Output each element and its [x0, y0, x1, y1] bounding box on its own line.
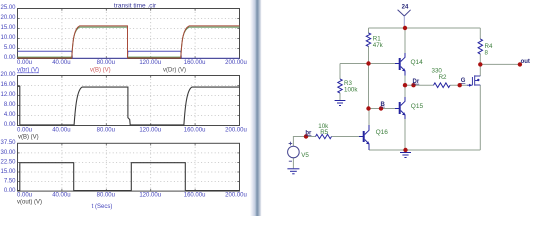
svg-text:47k: 47k — [373, 42, 384, 49]
plot2 x-axis labels — [17, 127, 247, 133]
svg-text:t (Secs): t (Secs) — [92, 204, 113, 210]
junction dot rail/collector — [403, 26, 407, 30]
plot3 x-axis labels — [17, 193, 247, 199]
svg-text:24: 24 — [402, 5, 409, 11]
junction dot node Dr left — [403, 83, 407, 87]
svg-text:v(Dr) (V): v(Dr) (V) — [163, 68, 186, 74]
wire R1 bottom to base wire — [368, 46, 370, 64]
MOSFET M1 — [467, 75, 481, 85]
plot1 x-axis labels — [17, 60, 247, 66]
wire node B to Q15 base — [369, 108, 396, 110]
svg-text:v(B) (V): v(B) (V) — [90, 68, 111, 74]
svg-text:120.00u: 120.00u — [139, 60, 161, 66]
svg-text:80.00u: 80.00u — [97, 60, 115, 66]
resistor R2 — [434, 83, 451, 88]
svg-text:B: B — [381, 102, 386, 108]
transistor Q14 — [395, 53, 405, 76]
wire MOSFET source down — [479, 85, 481, 150]
plot3 grid — [18, 143, 240, 191]
svg-text:v(br) (V): v(br) (V) — [17, 68, 39, 74]
svg-text:37.50: 37.50 — [0, 140, 16, 146]
plot2 trace v(B) dark — [18, 86, 240, 125]
plot3 y-axis labels — [0, 140, 16, 194]
svg-text:20.00: 20.00 — [0, 15, 16, 21]
wire R4 bottom to node out — [479, 54, 481, 64]
svg-text:out: out — [521, 59, 530, 65]
plot3 trace v(out) dark — [18, 163, 240, 191]
transistor Q16 — [359, 125, 369, 150]
svg-text:15.00: 15.00 — [0, 169, 16, 175]
plot2 grid — [18, 76, 240, 126]
V5 plus sign — [289, 142, 293, 146]
svg-text:R5: R5 — [320, 129, 328, 136]
wire Q15 emitter down — [404, 119, 406, 150]
ground under R3 — [335, 101, 346, 106]
svg-text:8: 8 — [485, 49, 489, 56]
svg-text:R2: R2 — [439, 74, 447, 81]
plot1 grid — [18, 9, 240, 59]
svg-text:16.00: 16.00 — [0, 82, 16, 88]
svg-text:7.50: 7.50 — [4, 179, 16, 185]
svg-text:30.00: 30.00 — [0, 150, 16, 156]
plot1 y-axis labels — [0, 5, 16, 61]
svg-text:100k: 100k — [344, 86, 358, 93]
resistor R3 — [338, 79, 342, 93]
wire R3 bottom stub — [339, 93, 341, 100]
svg-text:40.00u: 40.00u — [52, 60, 70, 66]
wire R5 to Q16 base — [332, 136, 360, 138]
svg-text:Q16: Q16 — [376, 129, 389, 136]
ground under V5 — [287, 169, 299, 174]
voltage source V5 — [288, 146, 300, 158]
plot1 trace v(br) blue — [18, 51, 240, 58]
plot2 frame — [18, 76, 240, 126]
svg-text:5.00: 5.00 — [4, 45, 16, 51]
wire node out horizontal — [480, 63, 520, 65]
svg-text:0.00u: 0.00u — [17, 60, 32, 66]
junction dot ground rail — [403, 148, 407, 152]
svg-text:200.00u: 200.00u — [225, 127, 247, 133]
wire Q14 collector to rail — [404, 28, 406, 53]
svg-text:G: G — [461, 78, 466, 84]
wire Q15 collector riser — [404, 85, 406, 97]
resistor R5 — [316, 134, 332, 138]
wire bottom rail — [369, 149, 480, 151]
transistor Q15 — [395, 97, 405, 119]
svg-text:15.00: 15.00 — [0, 25, 16, 31]
wire R3 top stub — [339, 64, 341, 80]
svg-text:80.00u: 80.00u — [97, 127, 115, 133]
junction dot node B right — [379, 106, 383, 110]
svg-text:200.00u: 200.00u — [225, 60, 247, 66]
svg-text:br: br — [305, 130, 312, 136]
svg-text:Dr: Dr — [413, 79, 420, 85]
wire node br to R5 — [306, 136, 316, 138]
junction dot node out right — [518, 62, 522, 66]
V5 minus sign — [289, 160, 292, 162]
svg-text:v(out) (V): v(out) (V) — [17, 200, 42, 206]
plot1 frame — [18, 9, 240, 59]
svg-text:20.00: 20.00 — [0, 72, 16, 78]
svg-text:4.00: 4.00 — [4, 112, 16, 118]
wire Q16 emitter stub — [368, 144, 370, 150]
svg-text:10.00: 10.00 — [0, 35, 16, 41]
wire top rail 24V — [369, 27, 481, 29]
resistor R1 — [366, 33, 370, 46]
plot1 trace v(B) red — [18, 26, 240, 58]
plot1 trace v(Dr) green — [18, 27, 240, 57]
svg-text:120.00u: 120.00u — [139, 127, 161, 133]
svg-text:12.00: 12.00 — [0, 92, 16, 98]
svg-text:Q15: Q15 — [411, 103, 424, 110]
svg-text:40.00u: 40.00u — [52, 193, 70, 199]
junction dot node out left — [478, 62, 482, 66]
junction dot node Dr right — [411, 83, 415, 87]
svg-text:0.00: 0.00 — [4, 188, 16, 194]
svg-text:0.00: 0.00 — [4, 55, 16, 61]
plot frame ticks — [18, 9, 240, 192]
resistor R4 — [478, 39, 482, 54]
svg-text:v(B) (V): v(B) (V) — [18, 135, 39, 141]
plot3 frame — [18, 143, 240, 191]
svg-text:160.00u: 160.00u — [184, 60, 206, 66]
wire V5 plus lead — [293, 137, 306, 147]
svg-text:0.00u: 0.00u — [17, 127, 32, 133]
svg-text:0.00: 0.00 — [4, 122, 16, 128]
wire Q14 base (node B1) — [340, 63, 395, 65]
tie node 24 — [398, 10, 411, 28]
svg-text:22.50: 22.50 — [0, 159, 16, 165]
junction dot node B left — [366, 106, 370, 110]
wire Q14 emitter to node Dr — [404, 76, 406, 86]
svg-text:80.00u: 80.00u — [97, 193, 115, 199]
wire R4 top stub — [479, 28, 481, 39]
junction dot R1/base wire — [366, 61, 370, 65]
wire R2 to node G — [450, 84, 467, 86]
svg-text:160.00u: 160.00u — [184, 193, 206, 199]
wire node Dr to R2 — [405, 84, 434, 86]
plot2 y-axis labels — [0, 72, 16, 128]
svg-text:200.00u: 200.00u — [225, 193, 247, 199]
svg-text:120.00u: 120.00u — [139, 193, 161, 199]
svg-text:Q14: Q14 — [411, 59, 424, 66]
wire Q16 collector riser — [368, 109, 370, 126]
ground main (bottom rail) — [400, 150, 411, 158]
svg-text:V5: V5 — [301, 152, 309, 159]
junction dot node br — [304, 134, 308, 138]
wire V5 minus lead — [292, 158, 294, 168]
svg-text:0.00u: 0.00u — [17, 193, 32, 199]
wire R1 top stub — [368, 28, 370, 34]
svg-text:25.00: 25.00 — [0, 5, 16, 11]
junction dot node G — [458, 83, 462, 87]
svg-text:40.00u: 40.00u — [52, 127, 70, 133]
wire vertical node B riser — [368, 64, 370, 109]
svg-text:160.00u: 160.00u — [184, 127, 206, 133]
svg-text:8.00: 8.00 — [4, 102, 16, 108]
wire MOSFET drain riser — [479, 64, 481, 76]
